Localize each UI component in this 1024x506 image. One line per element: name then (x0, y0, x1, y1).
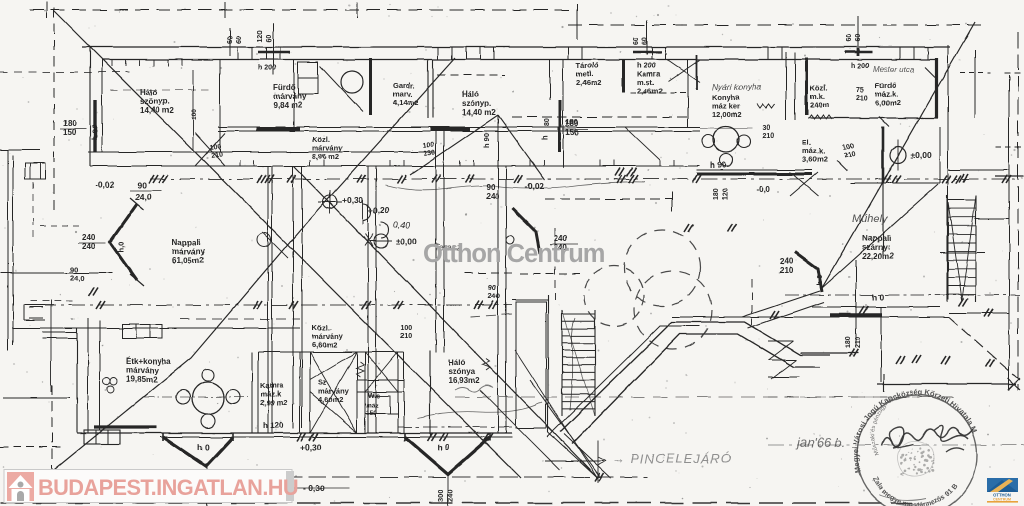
extra dashes mid level (465, 272, 515, 274)
stamp rim text upper arc (858, 394, 976, 472)
dimension ticks on main chain (149, 175, 154, 183)
bottom page dashed border (0, 502, 912, 504)
counter roof diagonal upper-center to bottom-left (44, 58, 455, 478)
svg-text:210: 210 (855, 336, 862, 348)
gardrobe right double wall (427, 60, 429, 118)
right wing inner wall (939, 127, 941, 183)
left axis vertical dashed line (53, 8, 55, 210)
svg-text:-0,02: -0,02 (525, 181, 545, 191)
right rooms bottom wall (808, 117, 938, 119)
svg-text:180: 180 (845, 336, 852, 348)
large dashed circle A (584, 266, 644, 326)
small circles near center arrow (506, 236, 514, 244)
etk konyha top wall (12, 327, 300, 329)
svg-text:h 0: h 0 (437, 442, 450, 452)
table axis dash-dot (144, 396, 248, 398)
benchmark half circle 0.40 (381, 222, 389, 238)
benchmark half circle +0.20 (363, 204, 371, 220)
extra lower verticals (271, 166, 273, 433)
large dashed circle B (624, 230, 700, 306)
lower hall horizontal (258, 351, 300, 353)
storage thick wall below corridor (558, 127, 561, 152)
svg-text:h 0: h 0 (815, 275, 824, 286)
svg-text:Konyhamáz ker12,00m2: Konyhamáz ker12,00m2 (712, 93, 742, 119)
stamp rim text lower arc (872, 477, 962, 506)
kamra door diagonal (668, 60, 700, 82)
right edge dashed mark (995, 146, 1022, 148)
right wing room bottom wall (850, 182, 940, 184)
upper rooms bottom wall (88, 151, 435, 153)
four chair table nyari konyha (713, 126, 739, 152)
center porch dim vertical (447, 474, 449, 506)
svg-text:240: 240 (446, 489, 455, 502)
bathroom left wall (293, 60, 295, 130)
benchmark circle 0.00 center (374, 234, 388, 248)
right band extra ticks (912, 355, 917, 363)
svg-text:h 200: h 200 (258, 65, 276, 72)
terrace promenade rail third (547, 326, 700, 437)
storage room walls (549, 60, 551, 101)
terrace bottom boundary line (877, 383, 1016, 385)
top-left corner verticals (89, 47, 91, 166)
left window bracket (24, 305, 45, 320)
center porch V thick (405, 437, 490, 474)
etk konyha bottom outer wall (77, 432, 512, 434)
terrace promenade rail upper (560, 322, 830, 432)
svg-text:180: 180 (566, 119, 578, 126)
top dim stub x858 (857, 48, 860, 56)
left porch V thick (163, 437, 233, 466)
signature flourish right (934, 425, 968, 452)
kitchen nested counter (122, 324, 162, 338)
nyari konyha window hatch (757, 104, 775, 108)
right stairs ladder (946, 195, 948, 302)
wc small fixtures (368, 396, 390, 414)
svg-text:+0,30: +0,30 (342, 195, 364, 205)
budapest ingatlan house icon (7, 472, 34, 501)
lower dim ticks (297, 433, 302, 441)
vertical dashed right of circles (751, 279, 753, 325)
svg-text:h 200: h 200 (851, 63, 869, 70)
right roof diagonal top-right to center (822, 22, 975, 288)
outer wall top edge (82, 46, 950, 48)
kitchen thick wall bottom-left (94, 425, 157, 428)
otthon centrum logo bottom right (987, 478, 1018, 503)
central wall pair right (497, 115, 499, 433)
svg-text:h,0: h,0 (117, 241, 126, 252)
svg-text:180150: 180150 (63, 119, 77, 137)
second roof diagonal parallel (294, 166, 598, 478)
toilet circle bathroom (341, 71, 363, 93)
terrace long dashed level line (455, 396, 960, 398)
stamp inner speckle blob (900, 447, 934, 476)
extra stair diagonals bottom center (515, 350, 597, 477)
central spine wall verticals (267, 166, 269, 433)
svg-text:h 0: h 0 (872, 292, 885, 302)
terrace promenade rail lower (572, 334, 820, 444)
light dashed line above stamp (768, 396, 960, 398)
upper wall tick pairs y60 (111, 60, 113, 67)
benchmark circle right wing (890, 147, 906, 163)
svg-text:-0,02: -0,02 (95, 180, 115, 190)
step diagonal to baseline (564, 434, 611, 478)
svg-text:60: 60 (266, 34, 273, 42)
basement stair freehand arrow (570, 318, 575, 410)
nyari konyha door diag (625, 127, 660, 160)
spring hatch el room (356, 362, 364, 377)
svg-text:60: 60 (855, 34, 862, 42)
center roof lambda left arm (410, 115, 498, 175)
corridor long wall (90, 165, 700, 167)
right door X near el (790, 172, 818, 196)
dim stub x273 (272, 23, 274, 75)
thick arrow center near stair (512, 208, 540, 254)
svg-text:CENTRUM: CENTRUM (993, 498, 1011, 502)
etk konyha left wall (76, 328, 78, 433)
svg-text:jan'66 b.: jan'66 b. (795, 435, 846, 450)
svg-text:60: 60 (236, 36, 243, 44)
svg-text:100230: 100230 (422, 141, 436, 157)
door swing near bedroom1 (195, 133, 225, 166)
right band horizontals (948, 169, 1009, 171)
right boundary vertical line (1017, 32, 1019, 390)
dashdot line through stamp (768, 444, 1024, 446)
svg-text:±0,00: ±0,00 (396, 236, 417, 246)
svg-text:Műhely: Műhely (852, 213, 889, 225)
halo szoba right wall (429, 350, 431, 437)
svg-text:Nappalimárvány61,05m2: Nappalimárvány61,05m2 (172, 238, 205, 265)
freehand terrace curve bottom (418, 402, 542, 418)
upper-right boundary vertical connector (576, 4, 578, 40)
left wall bay arrow thick (110, 204, 137, 280)
corridor top wall double line (218, 126, 700, 128)
svg-text:60: 60 (227, 36, 234, 44)
svg-text:240240: 240240 (82, 233, 96, 251)
wall below storage (512, 116, 690, 118)
freehand terrace curve middle (385, 182, 645, 191)
left porch dim vertical (206, 466, 208, 506)
kitchen nested counter bottom-left (84, 430, 120, 444)
bathroom right thick wall (369, 58, 372, 115)
svg-text:240210: 240210 (780, 257, 794, 275)
baseline dimension dashed (44, 476, 648, 478)
left outer double wall lower wing (7, 150, 9, 350)
corridor bottom tick pairs (239, 160, 241, 166)
svg-text:Mester utca: Mester utca (873, 65, 915, 74)
wall bedroom1 right (219, 60, 221, 152)
window tick marks along top outer wall (237, 47, 239, 60)
left wall window symbol upper (25, 163, 45, 179)
dining table with chairs (192, 382, 224, 414)
svg-text:W.c: W.c (368, 393, 380, 400)
nyari konyha right walls (785, 52, 787, 120)
svg-text:Otthon Centrum: Otthon Centrum (423, 240, 605, 268)
main dimension chain line (150, 178, 1015, 180)
svg-text:h 90: h 90 (90, 125, 99, 140)
lower band axis ticks (253, 301, 258, 309)
handwritten squiggle bottom right room (455, 386, 493, 392)
budapest ingatlan logo band (4, 470, 292, 503)
kamra storage dashed shelf (630, 92, 688, 94)
basement stair room box (516, 302, 546, 428)
svg-text:300: 300 (436, 489, 445, 502)
svg-text:h: h (540, 135, 549, 140)
right wing axis dashdot (785, 294, 1020, 296)
left edge reference marks (0, 149, 40, 151)
middle dashed hall line (545, 198, 672, 200)
corridor wall thick segments (256, 127, 300, 131)
stair top wall (512, 299, 548, 301)
upper-right boundary dashed line (568, 24, 985, 26)
left wall window thick segment (93, 100, 96, 152)
middle dashed line 2 (520, 273, 580, 275)
svg-text:60: 60 (642, 37, 649, 45)
svg-text:+0,20: +0,20 (368, 205, 390, 215)
lower dimension line (160, 436, 512, 438)
wall hatch zigzag near kozl (808, 115, 832, 119)
kamra right wall (687, 60, 689, 128)
benchmark circle +0.30 (323, 195, 337, 209)
svg-text:80: 80 (544, 118, 551, 126)
svg-text:BUDAPEST.INGATLAN.HU: BUDAPEST.INGATLAN.HU (38, 475, 298, 500)
right band verticals (974, 50, 976, 118)
center roof lambda right arm (498, 115, 545, 180)
svg-text:100210: 100210 (400, 325, 412, 340)
svg-text:Nyári konyha: Nyári konyha (712, 82, 762, 92)
thick double wall nyari konyha bottom (697, 173, 812, 176)
svg-text:100210: 100210 (209, 143, 223, 159)
terrace thick wall segment (830, 313, 882, 317)
kamra thick wall (622, 60, 625, 94)
pantry extra bracing (365, 352, 398, 392)
svg-text:h 120: h 120 (263, 421, 284, 430)
bedroom2 dashed shelf (437, 74, 505, 76)
stair bottom diagonals (530, 380, 600, 477)
terrace verticals (855, 260, 857, 345)
svg-text:-0,0: -0,0 (756, 185, 770, 194)
basement stair left wall (547, 295, 549, 432)
terrace upper wall (812, 306, 940, 308)
signature capital loop (889, 427, 913, 448)
svg-text:120: 120 (257, 30, 264, 42)
promenade horizontal extension (800, 352, 858, 354)
pantry cross bracing (310, 352, 357, 433)
tick marks on right diagonal (925, 67, 935, 77)
svg-text:0,40: 0,40 (393, 220, 410, 230)
etk left stub walls (42, 331, 77, 333)
svg-text:24,0: 24,0 (135, 192, 152, 202)
bathroom door diagonal (320, 66, 363, 112)
basement stair treads (562, 313, 595, 315)
left lower detail lines (0, 272, 112, 274)
basement stair rails (561, 310, 563, 416)
official round stamp (857, 395, 977, 506)
svg-text:→ PINCELEJÁRÓ: → PINCELEJÁRÓ (612, 451, 732, 466)
pinceleejaro arrow line (545, 460, 604, 462)
outer wall top inner edge (102, 59, 938, 61)
svg-text:h 90: h 90 (482, 133, 491, 148)
lower band axis dash-dot line (40, 304, 512, 306)
bathroom2 right thick outer wall (935, 58, 938, 118)
stamp signature scribble (882, 428, 973, 447)
bottom-right terrace diagonal (949, 317, 1020, 380)
top dim vertical x230 (229, 28, 231, 56)
left dashed vertical stub (32, 182, 34, 240)
svg-text:60: 60 (633, 37, 640, 45)
right edge small marks (1004, 72, 1024, 74)
promenade fork to bay arrow (742, 291, 820, 317)
furdo fixtures rect (298, 62, 318, 94)
top boundary dashed line (30, 9, 575, 11)
stamp inner blob outline (898, 441, 935, 477)
dashdot line above halo room (398, 426, 512, 428)
kamra dim stub (646, 20, 648, 55)
bedroom1 interior dim line (192, 70, 194, 150)
right wing bay arrow thick (795, 252, 822, 292)
large dashed circle C (634, 271, 712, 349)
svg-text:180: 180 (713, 188, 720, 200)
svg-text:+0,30: +0,30 (300, 442, 322, 452)
center hall verticals (435, 131, 437, 352)
main roof diagonal top-left to bottom-center (54, 11, 521, 478)
terrace step lines lower-left (768, 340, 793, 342)
svg-text:±0,00: ±0,00 (910, 150, 931, 160)
stamp lower text marks (880, 495, 926, 505)
svg-text:60: 60 (846, 34, 853, 42)
kozl mk thick wall (805, 58, 808, 115)
pantry block walls (300, 351, 404, 353)
right wing valley diagonal (822, 184, 938, 288)
top boundary tick marks (46, 2, 48, 18)
lower left door X (262, 232, 288, 258)
right wing left wall (882, 127, 884, 255)
pantry lower verticals (251, 352, 253, 433)
stamp rim text middle arc (875, 392, 963, 462)
lower band dashed second line (180, 318, 300, 320)
svg-text:100: 100 (191, 109, 198, 120)
misc dimension double ticks (770, 311, 775, 319)
svg-text:120: 120 (722, 188, 729, 200)
svg-text:h 90: h 90 (710, 161, 727, 170)
right stairs bottom ticks (959, 298, 964, 306)
svg-text:h 0: h 0 (197, 442, 210, 452)
svg-text:Nappaliszárny:22,20m2: Nappaliszárny:22,20m2 (862, 234, 894, 261)
svg-text:90: 90 (137, 180, 147, 190)
